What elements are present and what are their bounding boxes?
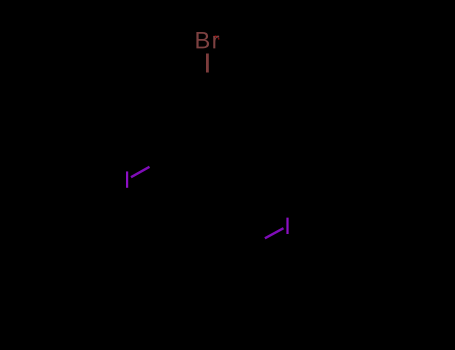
wire double-bond inner line C1'-C2' [207,234,241,253]
benzene ring 2 (bottom ring, carbon skeleton, black-on-black) [167,227,247,320]
wire double-bond inner line C5'-C6' [172,253,174,292]
wire C-I bond iodine half (purple), left iodine [131,167,150,177]
wire bond C3'-C4' [207,296,247,319]
wire bond C6-C1 [167,88,207,111]
wire bond C4-C5 [167,157,207,180]
wire double-bond inner line C5-C6 [172,114,174,153]
atom label I (right iodine) [286,218,288,234]
wire double-bond inner line C3'-C4' [208,295,242,314]
red artifact dots near r glyph [215,36,217,37]
wire double-bond inner line C1-C2 [207,95,241,114]
atom label Br (bromine) [196,32,219,48]
wire bond C6'-C1' [167,227,207,250]
wire bond C1-C2 [207,88,247,111]
wire bond C5'-C6' [166,250,168,296]
wire C-I bond carbon half (black), left iodine [149,157,167,167]
wire double-bond inner line C3-C4 [208,156,242,175]
wire bond C1'-C2' [207,227,247,250]
wire C-I bond iodine half (purple), right iodine [265,228,284,238]
wire C-Br bond bromine half (maroon) [206,54,209,73]
wire bond C3-C4 [207,157,247,180]
wire bond C5-C6 [166,111,168,157]
benzene ring 1 (top ring, carbon skeleton, black-on-black) [167,88,247,181]
wire biphenyl single bond C4-C1' [206,180,208,226]
wire C-Br bond carbon half (black) [206,72,208,88]
wire bond C2-C3 [246,111,248,157]
wire bond C4'-C5' [167,296,207,319]
wire C-I bond carbon half (black), right iodine [248,238,266,250]
wire bond C2'-C3' [246,250,248,296]
atom label I (left iodine) [126,171,128,187]
